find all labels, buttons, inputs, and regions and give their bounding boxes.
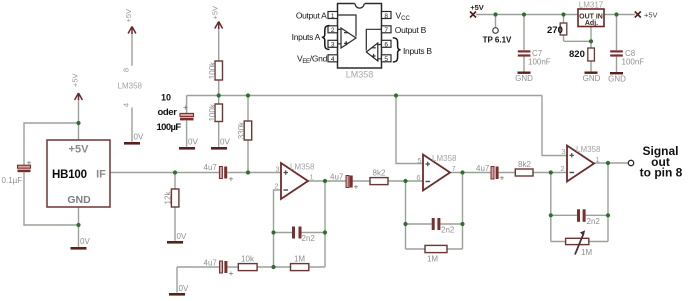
- svg-text:10: 10: [161, 93, 171, 103]
- wire opamp1 output: [308, 180, 346, 182]
- svg-text:+: +: [229, 174, 234, 184]
- svg-text:+5V: +5V: [69, 144, 90, 156]
- node junction IF at 12k: [173, 170, 177, 174]
- wire +5V arrow to HB100: [78, 99, 80, 140]
- wire opamp3 feedback left vertical: [550, 173, 552, 242]
- svg-text:0V: 0V: [220, 138, 230, 147]
- capacitor C9b 2n2 stage3: [577, 209, 600, 226]
- capacitor C1 0.1uF: [2, 158, 32, 186]
- wire HB100 supply to 0.1uF cap: [24, 123, 79, 165]
- ground 0V 100k divider: [211, 138, 230, 150]
- DIP brace inputs B: [393, 38, 401, 62]
- svg-text:to pin 8: to pin 8: [640, 166, 683, 180]
- DIP pin 2: [328, 26, 338, 33]
- DIP op-amp B: [366, 29, 381, 61]
- svg-text:7: 7: [384, 27, 388, 34]
- svg-text:+: +: [500, 173, 505, 183]
- svg-text:LM358: LM358: [576, 145, 601, 154]
- resistor 820: [569, 48, 594, 61]
- ground 0V 12k: [167, 232, 187, 244]
- resistor R2 100k lower: [208, 103, 223, 121]
- svg-text:VEE/Gnd: VEE/Gnd: [297, 53, 328, 65]
- wire LM358 power pins: [131, 33, 133, 142]
- svg-text:4u7: 4u7: [204, 259, 218, 268]
- svg-text:GND: GND: [608, 75, 626, 84]
- potentiometer 1M stage3: [566, 230, 593, 257]
- svg-text:+5V: +5V: [71, 73, 80, 87]
- node junction stage3 2n2 left: [549, 213, 553, 217]
- svg-text:12k: 12k: [164, 191, 173, 205]
- wire opamp1 inverting input: [274, 190, 282, 267]
- svg-text:0V: 0V: [188, 138, 198, 147]
- resistor R7 8k2 row A: [370, 169, 388, 185]
- svg-text:+5V: +5V: [644, 11, 658, 20]
- svg-text:8k2: 8k2: [373, 169, 386, 178]
- wire 100k divider column: [218, 29, 220, 147]
- svg-text:HB100: HB100: [52, 169, 87, 181]
- wire stage1 bottom ground stub: [176, 267, 178, 293]
- resistor R4 12k: [164, 189, 179, 207]
- test point TP 6.1V: [483, 28, 512, 45]
- capacitor C7b 2n2 stage2: [432, 218, 455, 235]
- wire 12k branch: [174, 173, 176, 241]
- ground GND C8: [608, 72, 626, 84]
- wire IF line: [110, 172, 281, 174]
- svg-text:330k: 330k: [237, 121, 246, 139]
- capacitor C4 2n2 stage1: [292, 227, 315, 244]
- wire stage3 2n2 row: [551, 214, 608, 216]
- HB100 module: [47, 140, 110, 207]
- resistor R8 1M stage2: [425, 245, 447, 263]
- wire opamp2 feedback left vertical: [405, 181, 407, 249]
- resistor R6 1M stage1: [291, 255, 309, 271]
- wire R 270 branch: [564, 15, 592, 42]
- DIP op-amp A: [338, 15, 357, 48]
- svg-text:LM358: LM358: [118, 82, 143, 91]
- DIP pin 6: [382, 40, 392, 47]
- svg-text:1M: 1M: [294, 255, 305, 264]
- op-amp U1C LM358: [560, 145, 601, 182]
- svg-text:+5V: +5V: [124, 9, 133, 23]
- node junction HB100 ground net: [76, 223, 80, 227]
- svg-text:1: 1: [310, 173, 314, 182]
- svg-text:5: 5: [384, 56, 388, 63]
- svg-text:1M: 1M: [427, 255, 438, 264]
- DIP pin 8: [382, 12, 392, 19]
- svg-text:100nF: 100nF: [622, 58, 645, 67]
- node junction rail at C8: [614, 12, 618, 16]
- svg-text:100k: 100k: [208, 103, 217, 121]
- op-amp U1A LM358: [274, 163, 315, 200]
- supply +5V arrow HB100: [75, 93, 83, 100]
- node junction HB100 supply: [76, 121, 80, 125]
- wire opamp3 output: [594, 162, 628, 164]
- wire top supply rail right: [604, 14, 635, 16]
- ground GND C7: [515, 72, 533, 84]
- wire 330k branch: [247, 96, 249, 173]
- capacitor C6 4u7 row A: [330, 173, 359, 192]
- svg-text:+: +: [183, 102, 188, 112]
- svg-text:+: +: [229, 268, 234, 278]
- ground GND 820: [583, 72, 601, 84]
- node junction opamp2 inverting: [403, 179, 407, 183]
- svg-text:100nF: 100nF: [528, 58, 551, 67]
- net flag +5V input left X: [470, 3, 484, 18]
- DIP pin 5: [382, 55, 392, 62]
- LM358 DIP-8 pinout diagram: [338, 4, 382, 69]
- DIP package body: [338, 4, 382, 69]
- svg-text:100k: 100k: [208, 61, 217, 79]
- svg-text:100µF: 100µF: [157, 122, 182, 133]
- svg-text:0.1µF: 0.1µF: [2, 176, 23, 185]
- resistor R3 330k: [237, 121, 252, 140]
- svg-text:oder: oder: [158, 107, 178, 118]
- wire bus to opamp3 +input: [542, 96, 567, 156]
- svg-text:0V: 0V: [179, 284, 189, 293]
- svg-text:270: 270: [547, 25, 563, 36]
- label signal out: [640, 144, 683, 180]
- DIP pin 3: [328, 40, 338, 47]
- node junction IF at 330k: [246, 170, 250, 174]
- node junction adj divider: [589, 39, 593, 43]
- svg-text:4: 4: [122, 103, 131, 107]
- svg-text:0V: 0V: [80, 237, 90, 246]
- terminal signal out: [628, 160, 633, 165]
- svg-text:4: 4: [331, 56, 335, 63]
- svg-text:LM358: LM358: [346, 70, 374, 80]
- node junction opamp1 output: [323, 179, 327, 183]
- resistor R1 100k upper: [208, 61, 223, 80]
- wire row B cap to 8k2: [499, 172, 567, 174]
- node junction bus at 330k: [246, 93, 250, 97]
- wire 0.1uF cap to ground net: [24, 172, 79, 225]
- resistor R5 10k: [238, 255, 257, 271]
- svg-text:TP 6.1V: TP 6.1V: [483, 36, 512, 45]
- svg-text:2n2: 2n2: [441, 226, 455, 235]
- node junction opamp3 output: [606, 161, 610, 165]
- svg-text:Adj.: Adj.: [585, 20, 598, 27]
- wire stage1 2n2 row: [274, 232, 326, 234]
- wire LM317 adj / 820 branch: [590, 27, 592, 72]
- wire HB100 gnd pin: [78, 207, 80, 247]
- node junction stage1 10k 1M: [271, 265, 275, 269]
- wire top supply rail left: [476, 14, 578, 16]
- capacitor C3 4u7 input: [204, 163, 234, 184]
- wire bias bus: [187, 95, 542, 97]
- svg-text:1M: 1M: [581, 248, 592, 257]
- svg-text:8k2: 8k2: [518, 160, 531, 169]
- svg-text:0V: 0V: [177, 232, 187, 241]
- svg-text:5: 5: [417, 156, 421, 165]
- node junction opamp2 output: [460, 170, 464, 174]
- wire C8 branch: [616, 15, 618, 73]
- wire stage1 bottom chain: [177, 266, 325, 268]
- node junction stage2 2n2 left: [403, 222, 407, 226]
- svg-text:8: 8: [122, 68, 131, 72]
- svg-text:GND: GND: [515, 74, 533, 83]
- svg-text:LM317: LM317: [579, 1, 604, 10]
- svg-text:+5V: +5V: [211, 6, 220, 20]
- svg-text:GND: GND: [583, 74, 601, 83]
- node junction rail at 270: [561, 12, 565, 16]
- svg-text:LM358: LM358: [432, 154, 457, 163]
- svg-text:IF: IF: [96, 169, 106, 181]
- wire opamp3 feedback right vertical: [607, 163, 609, 242]
- svg-text:7: 7: [452, 164, 456, 173]
- svg-text:10k: 10k: [241, 255, 255, 264]
- wire TP stub: [495, 15, 497, 28]
- svg-text:Output B: Output B: [395, 25, 427, 35]
- svg-text:3: 3: [275, 165, 279, 174]
- wire bus to opamp2 +input: [396, 96, 423, 164]
- wire opamp2 feedback right vertical: [462, 173, 464, 250]
- svg-text:Output A: Output A: [296, 10, 327, 20]
- wire opamp2 output: [450, 172, 491, 174]
- svg-text:+: +: [27, 158, 32, 168]
- svg-text:6: 6: [384, 42, 388, 49]
- ground 0V LM358 power: [124, 133, 144, 145]
- wire row A cap to 8k2: [353, 180, 424, 182]
- node junction opamp1 inverting / 2n2: [271, 230, 275, 234]
- svg-text:1: 1: [331, 13, 335, 20]
- capacitor C8b 4u7 row B: [476, 164, 505, 183]
- node junction bus to opamp2: [394, 93, 398, 97]
- svg-text:2: 2: [560, 164, 564, 173]
- svg-text:+: +: [354, 182, 359, 192]
- capacitor C2 100uF electrolytic: [157, 93, 194, 134]
- svg-text:LM358: LM358: [290, 163, 315, 172]
- svg-text:0V: 0V: [134, 133, 144, 142]
- svg-text:6: 6: [416, 173, 420, 182]
- svg-text:4u7: 4u7: [476, 164, 490, 173]
- wire stage3 pot row: [551, 241, 608, 243]
- svg-text:2: 2: [331, 27, 335, 34]
- DIP pin 4: [328, 55, 338, 62]
- supply +5V arrow divider: [215, 22, 223, 30]
- svg-text:+5V: +5V: [470, 3, 484, 12]
- node junction rail at C7: [522, 12, 526, 16]
- svg-text:Inputs B: Inputs B: [403, 46, 432, 56]
- DIP pin 1: [328, 12, 338, 19]
- node junction stage2 2n2 right: [460, 222, 464, 226]
- svg-text:1: 1: [596, 155, 600, 164]
- wire stage2 1M row: [406, 248, 463, 250]
- svg-text:4u7: 4u7: [204, 163, 218, 172]
- wire C7 branch: [523, 15, 525, 72]
- svg-text:2n2: 2n2: [587, 217, 601, 226]
- ground 0V HB100: [71, 237, 91, 250]
- DIP notch: [355, 2, 365, 8]
- svg-text:2: 2: [274, 182, 278, 191]
- node junction opamp3 inverting: [549, 170, 553, 174]
- net flag +5V output right X: [635, 11, 658, 20]
- supply +5V arrow LM358 power: [128, 27, 136, 35]
- node junction divider bus at 100k: [217, 93, 221, 97]
- LM358 power symbol pins: [118, 68, 143, 107]
- resistor 270: [547, 23, 567, 36]
- svg-text:820: 820: [569, 49, 585, 60]
- ground 0V stage1 input: [169, 284, 189, 296]
- ground 0V 100uF: [179, 138, 198, 150]
- DIP brace inputs A: [322, 26, 330, 50]
- capacitor C7 100nF: [518, 49, 551, 67]
- wire opamp1 output feedback vertical: [324, 181, 326, 267]
- resistor R9 8k2 row B: [515, 160, 533, 176]
- svg-text:GND: GND: [67, 194, 91, 206]
- DIP pin 7: [382, 26, 392, 33]
- voltage regulator LM317: [578, 1, 604, 28]
- svg-text:3: 3: [561, 147, 565, 156]
- capacitor C5 4u7 stage1 bottom: [204, 259, 234, 279]
- svg-text:3: 3: [331, 42, 335, 49]
- node junction rail at test point: [493, 12, 497, 16]
- wire 100uF branch: [186, 96, 188, 147]
- capacitor C8 100nF: [610, 49, 644, 67]
- svg-text:4u7: 4u7: [330, 173, 344, 182]
- svg-text:2n2: 2n2: [302, 234, 316, 243]
- svg-text:8: 8: [384, 13, 388, 20]
- wire stage2 2n2 row: [406, 223, 463, 225]
- op-amp U1B LM358: [416, 154, 457, 191]
- svg-text:Inputs A: Inputs A: [292, 32, 321, 42]
- node junction stage3 2n2 right: [606, 213, 610, 217]
- node junction stage1 2n2 right: [323, 230, 327, 234]
